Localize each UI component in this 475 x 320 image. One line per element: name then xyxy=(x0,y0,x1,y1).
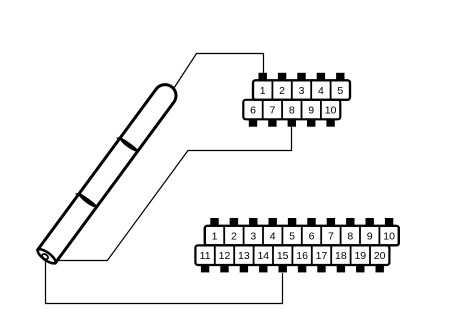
probe outline xyxy=(38,80,181,263)
svg-text:18: 18 xyxy=(335,250,347,262)
svg-text:5: 5 xyxy=(337,85,343,97)
wire from connector J1 pin 8 to probe middle xyxy=(52,125,292,261)
J1 re-stroke top row to keep shared edge xyxy=(253,80,350,100)
J2 top row cell dividers xyxy=(224,226,379,246)
svg-text:4: 4 xyxy=(318,85,324,97)
J1 top tabs pins 1-5 xyxy=(259,73,345,81)
svg-text:8: 8 xyxy=(347,231,353,243)
svg-text:1: 1 xyxy=(260,85,266,97)
J2 re-stroke top row to keep shared edge xyxy=(205,226,399,246)
svg-text:6: 6 xyxy=(309,231,315,243)
wire from probe tip to connector J2 pin 15 xyxy=(46,257,283,304)
connector J2 (20-pin) xyxy=(195,218,398,272)
svg-text:9: 9 xyxy=(308,105,314,117)
probe tip contact dot xyxy=(41,253,49,260)
J2 top tabs pins 1-10 xyxy=(210,218,393,226)
svg-text:4: 4 xyxy=(270,231,276,243)
svg-text:11: 11 xyxy=(200,250,211,262)
J1 pin numbers 6-10 xyxy=(250,105,337,117)
segment joint 2 rim step xyxy=(76,192,79,195)
svg-text:13: 13 xyxy=(238,250,250,262)
svg-text:10: 10 xyxy=(383,231,395,243)
svg-text:12: 12 xyxy=(219,250,231,262)
svg-text:14: 14 xyxy=(257,250,269,262)
svg-text:17: 17 xyxy=(316,250,328,262)
probe body (3-segment cylinder) xyxy=(33,79,180,266)
segment joint 1 rim step xyxy=(117,136,120,139)
svg-text:7: 7 xyxy=(269,105,275,117)
J1 bottom row body pins 6-10 xyxy=(243,100,340,120)
connector J1 (10-pin) xyxy=(243,73,350,127)
J2 pin numbers 1-10 xyxy=(212,231,396,243)
svg-text:7: 7 xyxy=(328,231,334,243)
svg-text:1: 1 xyxy=(212,231,218,243)
J2 pin numbers 11-20 xyxy=(200,250,386,262)
J2 bottom row body pins 11-20 xyxy=(195,245,389,265)
wire from probe top to connector J1 pin 1 xyxy=(174,54,264,89)
svg-text:5: 5 xyxy=(289,231,295,243)
J2 bottom row cell dividers xyxy=(215,245,370,265)
svg-text:3: 3 xyxy=(250,231,256,243)
probe tip end face xyxy=(36,247,58,266)
J1 top row body pins 1-5 xyxy=(253,80,350,100)
svg-text:19: 19 xyxy=(354,250,366,262)
svg-text:15: 15 xyxy=(277,250,289,262)
J1 bottom tabs pins 6-10 xyxy=(249,119,335,127)
svg-text:8: 8 xyxy=(289,105,295,117)
svg-text:20: 20 xyxy=(374,250,386,262)
svg-text:2: 2 xyxy=(279,85,285,97)
J1 top row cell dividers xyxy=(272,80,330,100)
svg-text:16: 16 xyxy=(296,250,308,262)
J2 bottom tabs pins 11-20 xyxy=(201,264,384,272)
svg-text:3: 3 xyxy=(299,85,305,97)
svg-text:2: 2 xyxy=(231,231,237,243)
segment joint 2 xyxy=(77,193,97,209)
svg-text:10: 10 xyxy=(325,105,337,117)
segment joint 1 xyxy=(119,137,139,153)
J1 pin numbers 1-5 xyxy=(260,85,344,97)
J2 top row body pins 1-10 xyxy=(205,226,399,246)
svg-text:9: 9 xyxy=(367,231,373,243)
J1 bottom row cell dividers xyxy=(263,100,321,120)
svg-text:6: 6 xyxy=(250,105,256,117)
